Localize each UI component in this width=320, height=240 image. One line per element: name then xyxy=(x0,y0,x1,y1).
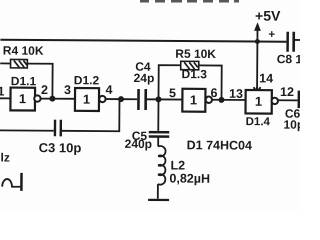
svg-text:6: 6 xyxy=(210,86,217,100)
svg-text:0,82µH: 0,82µH xyxy=(169,171,210,185)
svg-text:1: 1 xyxy=(255,94,262,109)
svg-text:24p: 24p xyxy=(134,71,155,85)
svg-text:10: 10 xyxy=(295,52,300,66)
svg-text:D1.3: D1.3 xyxy=(182,67,208,81)
svg-text:1: 1 xyxy=(19,91,26,106)
svg-text:1: 1 xyxy=(83,92,90,107)
svg-text:D1.1: D1.1 xyxy=(11,74,37,88)
svg-text:D1.4: D1.4 xyxy=(246,116,271,128)
svg-text:2: 2 xyxy=(41,83,48,97)
svg-text:4: 4 xyxy=(106,83,113,97)
svg-text:13: 13 xyxy=(229,87,243,101)
svg-text:L2: L2 xyxy=(170,158,185,172)
svg-text:1: 1 xyxy=(0,84,5,98)
svg-text:+5V: +5V xyxy=(255,8,281,24)
svg-text:10p: 10p xyxy=(283,118,300,132)
svg-text:14: 14 xyxy=(259,71,273,85)
svg-text:R5 10K: R5 10K xyxy=(175,47,216,61)
svg-text:240p: 240p xyxy=(125,137,152,151)
svg-text:D1.2: D1.2 xyxy=(74,73,100,87)
svg-text:C8: C8 xyxy=(277,52,293,66)
svg-text:R4 10K: R4 10K xyxy=(3,44,44,58)
svg-text:+: + xyxy=(268,29,275,41)
svg-text:C3 10p: C3 10p xyxy=(39,140,82,155)
svg-text:12: 12 xyxy=(280,85,294,99)
svg-text:D1 74HC04: D1 74HC04 xyxy=(187,138,252,152)
svg-text:3: 3 xyxy=(64,83,71,97)
svg-text:1: 1 xyxy=(190,92,197,107)
svg-text:5: 5 xyxy=(169,86,176,100)
svg-text:lz: lz xyxy=(1,151,10,165)
